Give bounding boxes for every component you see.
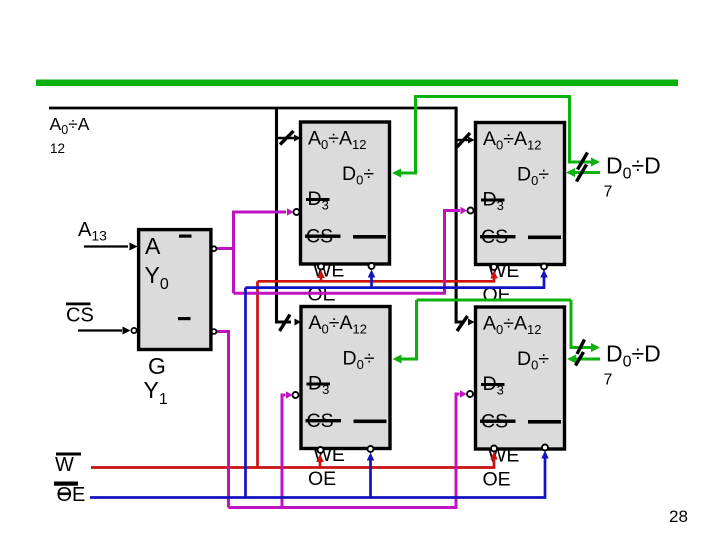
arrowhead magenta U1 CS [287,208,294,216]
CS input bubble [131,328,136,333]
arrowhead blue U3 OE [367,453,375,461]
wire: A13 input [84,245,128,247]
CS label overline [66,303,91,306]
svg-text:12: 12 [50,141,65,156]
wire: branch to U1 address input [277,137,295,139]
svg-text:28: 28 [669,507,688,526]
U1 dash mark [353,235,386,239]
arrowhead U2 A input [468,137,475,144]
svg-text:D0÷D: D0÷D [606,341,661,371]
U1 D3 overline stroke [306,198,330,201]
U2 dash mark [528,236,561,240]
wire: left address bus vertical [277,108,292,322]
wire: Y0 output stub [217,249,234,294]
U1 WE pin ring [318,264,324,270]
U3 OE pin ring [368,446,374,452]
wire: red horizontal upper row [258,275,495,281]
wire: green bus in stub top [573,171,600,174]
svg-text:A0÷A: A0÷A [50,114,90,137]
wire: address bus horizontal A0-A12 [49,107,456,110]
U4 dash mark [528,420,561,424]
wire: green bus in stub bottom [574,358,600,361]
svg-text:WE: WE [313,260,344,282]
svg-text:A13: A13 [78,219,107,244]
arrowhead green bus out bottom [591,343,600,352]
arrowhead blue U2 OE [540,270,548,278]
W overline [56,453,81,456]
wire: green drop to U1 D [399,95,416,173]
wire: Y1 run bottom [229,394,460,508]
U4 CS overline stroke [480,420,516,423]
svg-text:W: W [55,454,74,476]
svg-text:OE: OE [483,469,511,491]
slash green bus top 2 [577,165,587,182]
arrowhead U1 A input [294,135,301,142]
svg-text:Y1: Y1 [144,377,168,408]
U3 CS pin ring [293,392,299,398]
U3 CS overline stroke [306,419,342,422]
arrowhead blue U1 OE [368,270,376,278]
wire: blue branch U3 OE [369,457,372,498]
arrowhead green U3 D [393,355,402,364]
wire: blue riser to upper row [244,288,247,498]
memory chip U2 body [476,123,565,265]
bus slash U2 [457,133,470,147]
arrowhead red U4 WE [490,452,498,460]
U1 OE pin ring [369,263,375,269]
U1 CS pin ring [294,209,300,215]
arrowhead red U2 WE [490,271,498,279]
arrowhead magenta U2 CS [461,207,468,215]
arrowhead blue U4 OE [541,451,549,459]
arrowhead green bus out top [591,158,600,167]
OE overline bar [54,482,78,486]
U2 OE pin ring [541,264,547,270]
U2 WE pin ring [491,264,497,270]
wire: CS input [78,329,122,331]
wire: W input red horizontal [91,456,494,468]
svg-text:CS: CS [66,305,94,327]
arrowhead magenta U3 CS [286,391,293,399]
U4 WE pin ring [491,446,497,452]
wire: red branch U1 WE [320,275,323,281]
wire: green data bus bottom [417,299,572,302]
wire: blue horizontal upper row [246,274,545,288]
decoder Y1 output bubble [212,329,217,334]
arrowhead red U1 WE [317,270,325,278]
decoder Y1 overline dash [178,317,191,320]
U3 dash mark [354,420,387,424]
arrowhead U3 A input [295,319,302,326]
wire: branch to U2 address input [456,139,469,141]
wire: green drop right bottom [571,300,592,348]
U2 CS pin ring [468,208,474,214]
wire: right address bus vertical [456,107,464,322]
bus slash U1 [280,131,294,145]
svg-text:D0÷D: D0÷D [606,153,661,183]
wire: red branch U3 WE [319,459,322,468]
svg-text:OE: OE [308,468,336,490]
bus slash U4 [457,316,468,331]
svg-text:A: A [145,233,161,259]
arrowhead red U3 WE [316,454,324,462]
wire: OE input blue horizontal [90,455,545,498]
bus slash U3 [280,315,291,332]
wire: green drop right top [570,95,593,162]
arrowhead magenta U4 CS [460,390,467,398]
U4 CS pin ring [467,391,473,397]
memory chip U4 body [476,307,565,449]
wire: Y1 output stub [217,332,229,508]
U1 CS overline stroke [305,235,341,238]
wire: Y1 branch to U3 CS [282,395,286,508]
slash green bus bottom 2 [576,352,584,366]
memory chip U3 body [301,307,390,449]
slash green bus top 1 [578,153,588,170]
U2 D3 overline stroke [481,199,505,202]
arrowhead U4 A input [468,319,475,326]
wire: red riser to upper row [256,281,259,467]
decoder Y0 overline dash [179,235,192,238]
U2 CS overline stroke [480,235,516,238]
wire: blue branch U1 OE [370,274,373,288]
arrowhead green U4 D [567,355,576,364]
wire: green drop to U3 D [400,300,417,359]
U4 D3 overline stroke [481,383,505,386]
svg-text:7: 7 [604,372,613,389]
wire: Y0 to U1 CS [234,212,287,249]
slash green bus bottom 1 [577,340,585,355]
decoder U5 body [139,230,211,350]
memory chip U1 body [301,122,390,264]
U3 WE pin ring [318,447,324,453]
decoder Y0 output bubble [212,246,217,251]
OE O dash artifact [59,493,69,496]
arrowhead green U2 D [566,168,575,177]
arrowhead CS input [123,327,131,335]
U4 OE pin ring [542,445,548,451]
wire: green data bus top [416,95,570,98]
U3 D3 overline stroke [307,383,331,386]
wire: Y0 run under row1 [234,211,461,294]
arrowhead green U1 D [392,169,401,178]
green title bar [36,80,678,87]
arrowhead A13 [130,243,138,251]
svg-text:7: 7 [604,184,613,201]
svg-text:G: G [148,353,166,379]
